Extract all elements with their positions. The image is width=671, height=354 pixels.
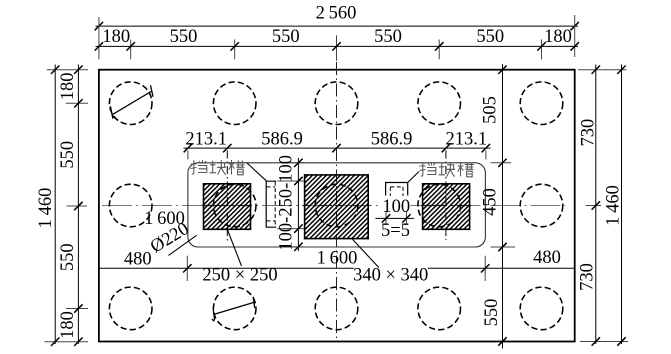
h extension bottom right	[580, 341, 628, 343]
ticks	[183, 264, 489, 272]
ext at pedestal top right	[491, 162, 511, 164]
svg-text:1 460: 1 460	[604, 185, 624, 226]
pile circle middle row col1	[109, 184, 152, 227]
pile circle middle row col4	[418, 184, 461, 227]
ticks row2	[95, 42, 579, 50]
svg-text:5=5: 5=5	[381, 221, 410, 241]
ticks	[294, 159, 302, 251]
h extension mid	[67, 205, 88, 207]
rounded rectangle pedestal 1600x450	[188, 163, 486, 247]
pile circle bottom row col5	[520, 287, 563, 330]
right column square 250x250	[423, 184, 470, 230]
pile circle middle row col3	[315, 184, 358, 227]
dim line left part	[99, 267, 354, 269]
pile circle bottom row col1	[109, 287, 152, 330]
left groove hidden edges	[267, 182, 276, 228]
pile circle top row col4	[418, 82, 461, 125]
svg-text:180: 180	[102, 27, 130, 47]
svg-text:180: 180	[544, 27, 572, 47]
left inner dim line	[77, 65, 79, 345]
leader right groove	[408, 172, 419, 183]
pile circle top row col2	[213, 82, 256, 125]
svg-text:1 600: 1 600	[317, 249, 358, 269]
ext pedestal left	[186, 256, 188, 281]
dim line 2560	[96, 25, 579, 27]
dim line	[502, 64, 504, 349]
ext left	[385, 211, 387, 224]
horizontal middle-row center line (left part)	[102, 205, 382, 207]
pile circle top row col1	[109, 82, 152, 125]
svg-text:180: 180	[58, 73, 78, 101]
extension line col5	[438, 40, 440, 60]
h extension top	[47, 69, 88, 71]
svg-text:213.1: 213.1	[185, 130, 227, 150]
ext bottom	[290, 246, 304, 248]
svg-text:586.9: 586.9	[371, 130, 413, 150]
center line dark segment across middle column	[303, 205, 370, 207]
ext top	[290, 162, 304, 164]
ext at pedestal bottom right	[491, 246, 515, 248]
ext rounded rect left corner	[187, 151, 189, 160]
tick	[95, 22, 103, 30]
dim line	[184, 147, 491, 149]
svg-text:550: 550	[58, 141, 78, 169]
ticks right lines	[592, 66, 626, 346]
left column center line	[226, 151, 228, 244]
dim line 100	[375, 217, 414, 219]
svg-text:250 × 250: 250 × 250	[202, 266, 277, 286]
ext pedestal right	[484, 256, 486, 281]
ext rounded rect right corner	[485, 151, 487, 160]
center column square 340x340	[305, 175, 369, 239]
ticks left lines	[51, 66, 83, 346]
leader 340x340	[353, 239, 379, 267]
leader for diameter	[169, 235, 197, 255]
ext right	[405, 211, 407, 224]
h extension mid right	[586, 205, 602, 207]
left column square 250x250	[204, 184, 251, 230]
ticks	[382, 214, 411, 222]
svg-text:730: 730	[578, 263, 598, 291]
right groove solid edges	[386, 183, 408, 196]
svg-text:550: 550	[374, 27, 402, 47]
svg-text:480: 480	[533, 248, 561, 268]
svg-text:550: 550	[482, 299, 502, 327]
svg-text:505: 505	[481, 96, 501, 124]
right column center line	[445, 151, 447, 241]
svg-text:730: 730	[579, 119, 599, 147]
h extension bottom	[45, 341, 89, 343]
svg-text:180: 180	[58, 311, 78, 339]
svg-text:1 460: 1 460	[36, 188, 56, 229]
dim line right part	[428, 267, 575, 269]
right groove hidden edges	[390, 187, 403, 196]
h extension 550	[66, 308, 88, 310]
ticks	[184, 144, 490, 152]
h extension 180	[66, 102, 88, 104]
extension line col6	[541, 40, 543, 60]
svg-text:100-250-100: 100-250-100	[277, 155, 297, 251]
diameter mark on top-left pile	[110, 85, 153, 121]
center line dark segment across right column	[421, 205, 471, 207]
svg-text:213.1: 213.1	[445, 130, 487, 150]
extension line col2	[130, 40, 132, 60]
h extension top right	[578, 69, 627, 71]
leader left groove	[247, 163, 266, 181]
svg-text:550: 550	[58, 243, 78, 271]
svg-text:450: 450	[481, 188, 501, 216]
label stop-block groove right (挡块槽)	[420, 162, 475, 177]
extension line col3	[234, 40, 236, 60]
svg-text:340 × 340: 340 × 340	[353, 266, 428, 286]
tick	[571, 22, 579, 30]
pile circle middle row col5	[520, 184, 563, 227]
ticks	[498, 66, 506, 346]
right 1460 dim line	[621, 65, 623, 345]
extension line right end	[574, 15, 576, 57]
svg-text:550: 550	[272, 27, 300, 47]
dim line	[297, 158, 299, 251]
horizontal middle-row center line (right part)	[411, 205, 566, 207]
svg-text:550: 550	[476, 27, 504, 47]
pile circle top row col3	[315, 82, 358, 125]
svg-text:480: 480	[124, 250, 152, 270]
ext groove top	[278, 180, 305, 182]
label stop-block groove left (挡块槽)	[191, 160, 246, 175]
leader 250x250	[227, 229, 242, 267]
pile circle middle row col2	[213, 184, 256, 227]
svg-text:2 560: 2 560	[316, 4, 357, 24]
pile circle bottom row col2	[213, 287, 256, 330]
pile circle bottom row col4	[418, 287, 461, 330]
vertical main center line	[336, 62, 338, 340]
svg-text:586.9: 586.9	[261, 130, 303, 150]
svg-text:100: 100	[382, 197, 410, 217]
svg-text:550: 550	[170, 27, 198, 47]
pile circle top row col5	[520, 82, 563, 125]
diameter mark on bottom row second pile	[212, 297, 255, 321]
ext groove bottom	[278, 228, 305, 230]
extension line left end	[98, 17, 100, 59]
center line dark segment across left column	[202, 205, 252, 207]
dim line	[96, 45, 579, 47]
left groove solid edges	[266, 181, 276, 228]
right 730 dim line	[595, 65, 597, 345]
plate rectangle 2560x1460	[99, 70, 575, 342]
left outer dim line 1460	[54, 65, 56, 345]
pile circle bottom row col3	[315, 287, 358, 330]
